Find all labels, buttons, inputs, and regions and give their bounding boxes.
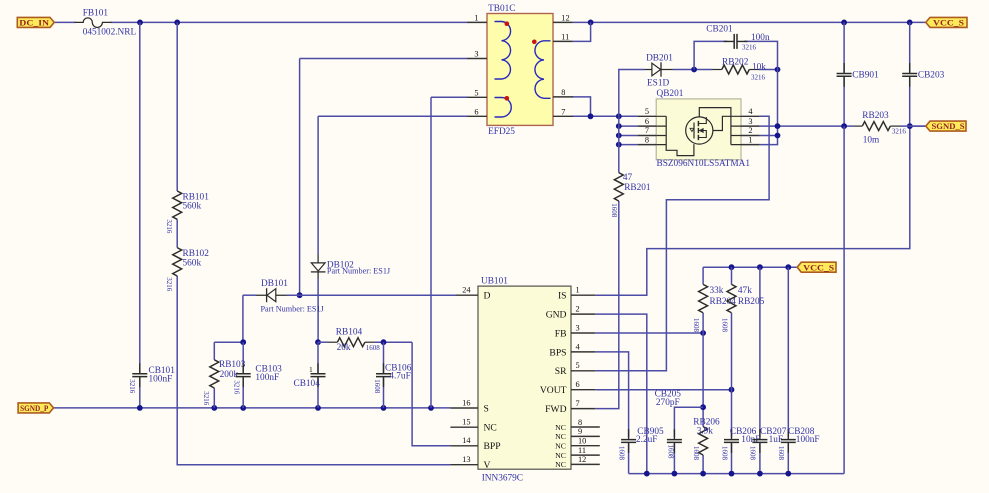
node junction VCC_S/CB203 [907, 20, 913, 26]
wire shunt left column [843, 126, 845, 474]
transformer TB01C [487, 4, 553, 137]
wire RB104 right to BPP corner [375, 341, 413, 343]
svg-text:560k: 560k [183, 258, 202, 268]
pin 14 UB101 BPP [450, 436, 500, 452]
wire CB205 branch [674, 407, 703, 473]
node junction DB102/CB104/RB104 [315, 339, 321, 345]
svg-text:2: 2 [576, 305, 580, 314]
wire D net to UB101 pin 24 [287, 294, 456, 296]
node junction FWD column top [616, 113, 622, 119]
wire CB207 column [759, 267, 761, 473]
pin 11 TB01C [553, 33, 573, 42]
pin 16 UB101 S [450, 398, 488, 414]
svg-text:1608: 1608 [720, 446, 728, 461]
node junction RB203 right SGND_S [907, 123, 913, 129]
port DC_IN [17, 17, 54, 27]
node junction SGND_P/CB106 [381, 405, 387, 411]
node junction DC_IN/CB101 [137, 20, 143, 26]
svg-text:15: 15 [462, 418, 470, 427]
svg-text:Part Number: ES1J: Part Number: ES1J [261, 305, 325, 314]
node junction GND rail/CB205 [672, 471, 678, 477]
transistor QB201 drain path [699, 108, 741, 145]
node junction pin7/pin8 [588, 113, 594, 119]
svg-text:RB205: RB205 [738, 297, 765, 307]
ferrite bead FB101 [75, 9, 137, 38]
svg-text:3216: 3216 [742, 44, 757, 52]
wire DB201 anode branch [619, 70, 645, 117]
capacitor CB208 [777, 427, 819, 461]
node junction QB201 pin8 [616, 142, 622, 148]
wire RB203 right lead [900, 125, 926, 127]
svg-text:8: 8 [645, 135, 649, 144]
capacitor CB201 [706, 25, 770, 52]
svg-text:11: 11 [561, 33, 569, 42]
svg-text:2.2uF: 2.2uF [636, 435, 657, 445]
svg-text:5: 5 [645, 107, 649, 116]
svg-text:100n: 100n [751, 33, 770, 43]
pin 6 TB01C [468, 107, 488, 116]
svg-text:6: 6 [576, 380, 580, 389]
resistor RB104 [328, 328, 381, 354]
pin 6 QB201 [638, 117, 657, 126]
svg-text:13: 13 [462, 455, 470, 464]
wire VCC_S top rail [573, 21, 926, 23]
svg-text:6: 6 [474, 107, 478, 116]
svg-text:3216: 3216 [128, 379, 136, 394]
svg-text:10k: 10k [752, 62, 766, 72]
capacitor CB104 [294, 363, 326, 389]
wire RB205 chain [731, 267, 733, 473]
svg-text:DC_IN: DC_IN [19, 18, 50, 28]
svg-text:3: 3 [474, 50, 478, 59]
svg-text:200k: 200k [220, 370, 239, 380]
pin 6 UB101 VOUT [540, 380, 595, 396]
svg-text:1608: 1608 [692, 318, 700, 333]
svg-text:BPP: BPP [484, 441, 501, 452]
svg-text:1: 1 [474, 13, 478, 22]
port SGND_S [926, 121, 966, 131]
pin 5 UB101 SR [555, 361, 596, 377]
port VCC_S bottom [797, 262, 836, 272]
node junction GND rail/GND [644, 471, 650, 477]
wire clamp node RB103-CB103 [214, 341, 243, 343]
node junction SGND_P/CB103 [240, 405, 246, 411]
pin 13 UB101 V [450, 455, 490, 471]
svg-text:24: 24 [462, 286, 471, 295]
svg-text:IS: IS [558, 291, 567, 302]
port SGND_P [18, 403, 53, 413]
node junction DC_IN/RB101 [174, 20, 180, 26]
node junction pin12/pin11 [588, 20, 594, 26]
svg-text:INN3679C: INN3679C [482, 474, 523, 484]
wire IS net [595, 126, 910, 295]
svg-text:Part Number: ES1J: Part Number: ES1J [327, 266, 391, 275]
svg-text:S: S [484, 403, 489, 414]
capacitor CB905 [617, 427, 664, 461]
wire VOUT net [595, 389, 731, 391]
svg-text:1608: 1608 [366, 344, 381, 352]
wire DB201 cathode to RB202 [673, 69, 713, 71]
wire VCC_S bottom rail [703, 266, 797, 268]
node junction VCC_S/CB901 [841, 20, 847, 26]
pin 12 TB01C [553, 14, 573, 23]
svg-text:1608: 1608 [777, 446, 785, 461]
resistor RB102 [165, 248, 209, 292]
pin 15 UB101 NC [450, 418, 496, 434]
node junction GND rail/CB207 [757, 471, 763, 477]
svg-text:1: 1 [309, 365, 313, 374]
wire CB106 leads [383, 342, 385, 408]
wire CB104 leads [317, 342, 319, 408]
svg-text:2: 2 [748, 126, 752, 135]
node junction RB203 left [841, 123, 847, 129]
pin 5 TB01C [468, 88, 488, 97]
node junction FB/RB204 [700, 330, 706, 336]
pin 11 UB101 NC [555, 446, 600, 460]
svg-text:0451002.NRL: 0451002.NRL [83, 28, 137, 38]
svg-text:3: 3 [748, 117, 752, 126]
node junction snubber right [775, 67, 781, 73]
svg-text:10m: 10m [863, 136, 880, 146]
svg-text:NC: NC [555, 451, 566, 460]
wire QB201 pin3 row to RB203 [760, 125, 854, 127]
svg-text:3216: 3216 [892, 128, 907, 136]
node junction VCCS/RB205 [729, 264, 735, 270]
resistor RB201 [610, 173, 651, 218]
node junction RB204/CB205wire [700, 404, 706, 410]
port VCC_S top [926, 17, 967, 27]
wire CB208 column [787, 267, 789, 473]
capacitor CB106 [373, 363, 412, 393]
transistor QB201 body [656, 89, 750, 169]
pin 5 QB201 [638, 107, 657, 116]
resistor RB205 [721, 284, 765, 332]
svg-text:UB101: UB101 [481, 277, 508, 287]
diode DB101 [256, 279, 325, 313]
node junction VCCS/CB208 [785, 264, 791, 270]
capacitor CB901 [837, 63, 879, 87]
svg-text:DB101: DB101 [261, 279, 288, 289]
wire BPS net [595, 352, 628, 474]
node junction QB201 pin3 [775, 123, 781, 129]
resistor RB202 [713, 57, 767, 81]
wire QB201 pin4 to SR [595, 116, 769, 370]
pin 8 TB01C [553, 88, 573, 97]
node junction QB201 pin2 [775, 133, 781, 139]
node junction QB201 pin7 [616, 133, 622, 139]
svg-text:1608: 1608 [617, 446, 625, 461]
svg-text:GND: GND [546, 310, 567, 321]
svg-text:1: 1 [576, 286, 580, 295]
svg-text:1: 1 [748, 135, 752, 144]
wire RB104 left lead [318, 341, 328, 343]
wire GND net [595, 314, 647, 474]
node junction GND rail/CB208 [785, 471, 791, 477]
wire FB net [595, 332, 703, 334]
svg-text:9: 9 [578, 427, 582, 436]
svg-text:FWD: FWD [545, 404, 566, 415]
resistor RB204 [692, 284, 736, 332]
pin 1 QB201 [741, 135, 760, 144]
wire SGND_P rail [54, 407, 451, 409]
svg-text:3216: 3216 [202, 391, 210, 406]
node junction SGND_P/CB101 [137, 405, 143, 411]
svg-text:3216: 3216 [232, 380, 240, 395]
wire TB01C pin8 tie [572, 97, 591, 116]
svg-text:100nF: 100nF [255, 373, 279, 383]
svg-text:ES1D: ES1D [647, 79, 669, 89]
svg-text:1608: 1608 [610, 203, 618, 218]
capacitor CB203 [902, 63, 944, 87]
pin 7 TB01C [553, 108, 573, 117]
resistor RB103 [202, 360, 245, 406]
pin 2 QB201 [741, 126, 760, 135]
svg-text:1608: 1608 [721, 318, 729, 333]
svg-text:FB101: FB101 [83, 9, 109, 19]
pin 1 TB01C [468, 13, 488, 22]
pin 3 UB101 FB [555, 323, 596, 339]
svg-text:NC: NC [555, 460, 566, 469]
pin 9 UB101 NC [555, 427, 600, 441]
svg-text:RB104: RB104 [336, 328, 363, 338]
svg-text:11: 11 [578, 446, 586, 455]
wire DB101 cathode branch [243, 295, 256, 342]
wire CB901 leads [843, 22, 845, 126]
svg-text:NC: NC [555, 423, 566, 432]
svg-text:EFD25: EFD25 [488, 127, 515, 137]
capacitor CB205 [655, 390, 682, 459]
svg-text:47k: 47k [738, 286, 752, 296]
transformer TB01C primary winding 1-3 [495, 22, 511, 80]
svg-text:CB104: CB104 [294, 379, 321, 389]
svg-text:3.9k: 3.9k [697, 426, 714, 436]
wire RB103 leads [213, 342, 215, 408]
svg-text:5: 5 [576, 361, 580, 370]
svg-text:12: 12 [578, 455, 586, 464]
wire CB101 branch [139, 22, 141, 408]
polarity dot winding 1-3 [505, 21, 510, 26]
svg-text:QB201: QB201 [657, 89, 684, 99]
svg-text:NC: NC [555, 432, 566, 441]
resistor RB101 [165, 191, 209, 234]
node junction SGND_P/RB103 [211, 405, 217, 411]
pin 4 QB201 [741, 107, 760, 116]
svg-text:BSZ096N10LS5ATMA1: BSZ096N10LS5ATMA1 [657, 159, 751, 169]
wire CB203 leads [909, 22, 911, 126]
svg-text:20k: 20k [337, 343, 351, 353]
svg-text:D: D [484, 291, 491, 302]
svg-text:7: 7 [645, 126, 649, 135]
pin 3 TB01C [468, 50, 488, 59]
capacitor CB103 [232, 363, 282, 395]
wire BPP net [412, 342, 450, 446]
svg-text:8: 8 [578, 418, 582, 427]
transformer TB01C bias winding 5-6 [495, 98, 512, 118]
pin 8 UB101 NC [555, 418, 600, 432]
node junction SGND_P/CB104 [315, 405, 321, 411]
wire QB201 pin7 stub wire [619, 135, 638, 137]
wire CB103 leads [242, 342, 244, 408]
polarity dot winding 5-6 [505, 96, 510, 101]
svg-text:5: 5 [474, 88, 478, 97]
svg-text:3216: 3216 [165, 277, 173, 292]
pin 3 QB201 [741, 117, 760, 126]
wire TB01C pin3 to D net [300, 59, 468, 296]
pin 8 QB201 [638, 135, 657, 144]
svg-text:NC: NC [484, 423, 497, 434]
svg-text:CB901: CB901 [852, 71, 879, 81]
svg-text:7: 7 [576, 399, 580, 408]
wire RB204 chain [702, 267, 704, 473]
svg-text:RB103: RB103 [219, 360, 246, 370]
svg-text:100nF: 100nF [149, 375, 173, 385]
svg-text:TB01C: TB01C [488, 4, 515, 14]
wire snubber to QB201 drain pins [760, 70, 778, 145]
svg-text:NC: NC [555, 442, 566, 451]
node junction QB201 pin6 [616, 123, 622, 129]
svg-text:47: 47 [623, 173, 633, 183]
svg-text:10: 10 [578, 437, 586, 446]
svg-text:BPS: BPS [549, 347, 566, 358]
wire TB01C pin5 to S rail [431, 97, 468, 408]
wire secondary GND bottom rail [629, 473, 845, 475]
transistor QB201 source bus [656, 116, 694, 155]
capacitor CB207 [749, 427, 787, 461]
pin 10 UB101 NC [555, 437, 600, 451]
wire RB101/RB102 to V pin [177, 22, 450, 464]
wire RB201 top lead [618, 116, 620, 172]
svg-text:7: 7 [561, 108, 565, 117]
wire QB201 pin2 stub wire [760, 135, 778, 137]
wire QB201 pin8 stub wire [619, 144, 638, 146]
wire QB201 pin6 stub wire [619, 125, 638, 127]
diode DB201 [645, 53, 674, 88]
polarity dot secondary [532, 40, 537, 45]
svg-text:CB201: CB201 [706, 25, 733, 35]
pin 4 UB101 BPS [549, 342, 595, 358]
node junction GND rail/CB206 [729, 471, 735, 477]
wire TB01C pin7 row to QB201 pin5 [572, 115, 638, 117]
svg-text:3216: 3216 [165, 219, 173, 234]
svg-text:RB202: RB202 [722, 57, 749, 67]
svg-text:3216: 3216 [751, 73, 766, 81]
pin 7 QB201 [638, 126, 657, 135]
wire DC_IN rail (DC_IN to TB01C pin 1) [54, 21, 468, 23]
svg-text:V: V [484, 460, 491, 471]
svg-text:100nF: 100nF [796, 435, 820, 445]
pin 7 UB101 FWD [545, 399, 595, 415]
node junction DB101/CB103 [240, 339, 246, 345]
svg-text:270pF: 270pF [656, 398, 680, 408]
capacitor CB101 [128, 363, 175, 393]
svg-text:6: 6 [645, 117, 649, 126]
svg-text:RB203: RB203 [862, 111, 889, 121]
svg-text:1608: 1608 [749, 446, 757, 461]
svg-text:CB203: CB203 [918, 71, 945, 81]
pin 1 UB101 IS [558, 286, 595, 302]
svg-text:FB: FB [555, 328, 567, 339]
wire CB201 branch [694, 41, 777, 69]
svg-text:SGND_P: SGND_P [20, 403, 48, 413]
node junction D net [297, 292, 303, 298]
svg-text:SR: SR [555, 366, 567, 377]
svg-text:8: 8 [561, 88, 565, 97]
svg-text:RB201: RB201 [624, 183, 651, 193]
wire SGND_S port wire [910, 125, 926, 127]
node junction snubber left [691, 67, 697, 73]
transistor QB201 gate path [713, 116, 741, 130]
wire TB01C pin6 to DB102 [318, 116, 468, 342]
svg-text:16: 16 [462, 398, 470, 407]
transformer TB01C secondary winding [535, 41, 551, 99]
svg-text:DB201: DB201 [646, 53, 673, 63]
svg-text:SGND_S: SGND_S [932, 121, 965, 131]
svg-text:560k: 560k [183, 202, 202, 212]
capacitor CB206 [720, 427, 760, 461]
svg-text:VCC_S: VCC_S [803, 262, 834, 272]
svg-text:3: 3 [576, 323, 580, 332]
svg-text:4.7uF: 4.7uF [389, 372, 410, 382]
wire RB202 right lead [759, 69, 778, 71]
svg-text:VCC_S: VCC_S [933, 18, 964, 28]
svg-text:14: 14 [462, 436, 471, 445]
wire RB201 bottom to FWD [595, 201, 619, 409]
pin 2 UB101 GND [546, 305, 596, 321]
node junction SGND_P/TB01C pin5 [428, 405, 434, 411]
svg-text:1608: 1608 [666, 445, 674, 460]
svg-text:1608: 1608 [692, 446, 700, 461]
resistor RB203 [854, 111, 907, 146]
diode DB102 [311, 255, 391, 279]
svg-text:1608: 1608 [373, 379, 381, 394]
node junction VCCS/CB207 [757, 264, 763, 270]
svg-text:33k: 33k [710, 286, 724, 296]
node junction VOUT/RB205 [729, 387, 735, 393]
svg-text:12: 12 [561, 14, 569, 23]
resistor RB206 [692, 418, 720, 461]
svg-text:VOUT: VOUT [540, 385, 567, 396]
op-amp U1 IC UB101 body [478, 277, 571, 484]
pin 24 UB101 D [456, 286, 491, 302]
node junction RB104/CB106 [381, 339, 387, 345]
transistor QB201 mosfet symbol [686, 117, 713, 144]
pin 12 UB101 NC [555, 455, 600, 469]
node junction GND rail/RB206 [700, 471, 706, 477]
wire TB01C pin11 tie [573, 22, 591, 41]
